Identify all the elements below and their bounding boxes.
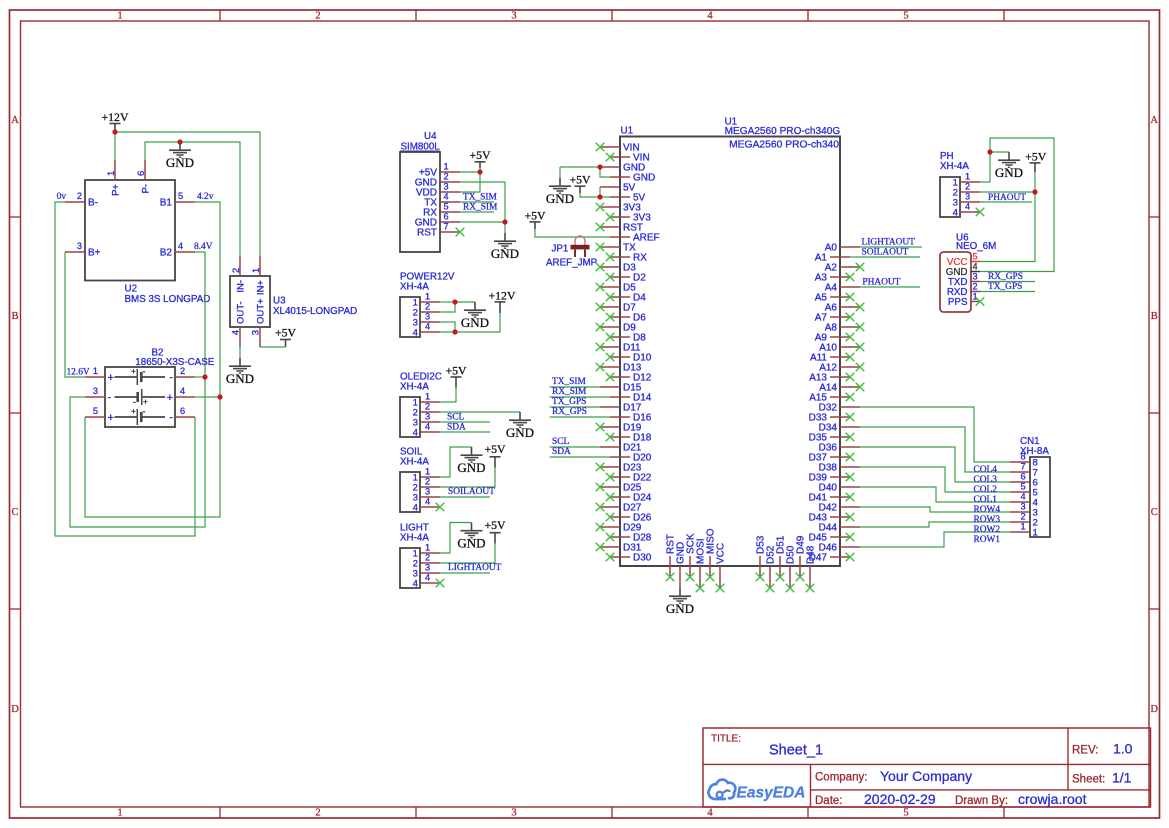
svg-text:3: 3 [511,11,516,22]
svg-text:3: 3 [973,271,978,281]
svg-text:1: 1 [106,171,117,176]
svg-text:3: 3 [965,191,970,201]
svg-text:+: + [108,372,114,384]
svg-text:B+: B+ [88,248,101,259]
svg-text:GND: GND [457,535,485,550]
svg-text:B: B [1151,311,1158,322]
svg-text:Sheet_1: Sheet_1 [769,743,823,759]
svg-text:RX_SIM: RX_SIM [552,387,587,397]
svg-text:Your Company: Your Company [880,768,972,784]
svg-text:6: 6 [1020,471,1025,481]
svg-text:4: 4 [707,11,713,22]
svg-text:+5V: +5V [524,208,546,222]
svg-text:5: 5 [973,251,978,261]
svg-text:COL1: COL1 [974,495,998,505]
svg-text:ROW1: ROW1 [974,535,1001,545]
svg-text:COL2: COL2 [974,485,998,495]
svg-text:2: 2 [315,808,320,819]
svg-text:2: 2 [425,401,430,411]
svg-text:JP1: JP1 [552,243,569,254]
svg-text:1: 1 [251,268,262,273]
svg-text:1: 1 [973,291,978,301]
svg-text:GND: GND [546,191,574,206]
svg-text:TX_SIM: TX_SIM [463,193,498,203]
svg-text:1: 1 [1020,521,1025,531]
svg-text:+: + [131,406,136,416]
svg-text:B-: B- [88,198,98,209]
svg-text:SDA: SDA [552,447,571,457]
svg-text:-: - [143,406,146,416]
svg-text:+5V: +5V [484,518,506,532]
svg-text:3: 3 [425,562,430,572]
svg-text:LIGHTAOUT: LIGHTAOUT [862,238,916,248]
svg-text:6: 6 [136,171,147,176]
svg-text:4: 4 [443,191,448,201]
svg-text:12.6V: 12.6V [67,368,90,378]
svg-text:1/1: 1/1 [1112,769,1132,785]
svg-text:XL4015-LONGPAD: XL4015-LONGPAD [273,306,357,317]
svg-text:SDA: SDA [447,423,466,433]
svg-text:REV:: REV: [1072,745,1098,757]
svg-text:+12V: +12V [489,289,516,303]
svg-text:SCL: SCL [552,437,569,447]
svg-text:0v: 0v [57,192,67,202]
svg-text:OUT-: OUT- [236,301,247,324]
svg-text:LIGHTAOUT: LIGHTAOUT [448,563,502,573]
svg-text:6: 6 [443,211,448,221]
svg-text:5: 5 [178,191,183,201]
svg-text:3: 3 [425,411,430,421]
svg-text:AREF: AREF [633,232,660,243]
svg-text:D48: D48 [805,545,816,564]
svg-text:4: 4 [178,241,183,251]
svg-text:4: 4 [425,421,430,431]
svg-text:ROW4: ROW4 [974,505,1001,515]
svg-text:PHAOUT: PHAOUT [988,193,1026,203]
svg-text:GND: GND [457,460,485,475]
svg-text:2: 2 [1020,511,1025,521]
svg-text:4: 4 [973,261,978,271]
svg-text:SOILAOUT: SOILAOUT [448,487,495,497]
svg-text:4: 4 [231,330,242,335]
svg-text:GND: GND [633,172,655,183]
svg-text:8: 8 [1020,451,1025,461]
svg-text:1: 1 [1033,527,1038,538]
svg-text:4: 4 [180,386,185,396]
svg-text:-: - [143,366,146,376]
svg-text:4: 4 [965,201,970,211]
svg-text:B2: B2 [160,248,173,259]
svg-text:GND: GND [506,425,534,440]
svg-text:7: 7 [443,221,448,231]
svg-text:P-: P- [141,184,152,194]
svg-text:2: 2 [425,301,430,311]
svg-text:Company:: Company: [815,772,867,784]
svg-text:GND: GND [675,542,686,564]
svg-text:RX_GPS: RX_GPS [988,272,1023,282]
svg-text:+: + [167,392,173,404]
svg-text:4: 4 [413,578,419,589]
svg-text:B: B [11,311,18,322]
svg-text:4.2v: 4.2v [197,192,214,202]
svg-text:Sheet:: Sheet: [1072,773,1105,785]
svg-text:D: D [11,704,19,715]
svg-text:C: C [1151,507,1158,518]
svg-text:MOSI: MOSI [695,538,706,564]
svg-text:+: + [131,366,136,376]
svg-text:C: C [11,507,18,518]
svg-text:3: 3 [425,311,430,321]
svg-text:SOILAOUT: SOILAOUT [862,248,909,258]
svg-text:2: 2 [965,181,970,191]
svg-text:5: 5 [903,808,908,819]
svg-text:1: 1 [117,808,122,819]
svg-text:1: 1 [965,171,970,181]
svg-text:VCC: VCC [715,543,726,564]
svg-text:1: 1 [425,391,430,401]
svg-text:PHAOUT: PHAOUT [862,277,900,287]
svg-text:3: 3 [93,386,98,396]
svg-text:2: 2 [443,171,448,181]
svg-text:COL4: COL4 [974,465,998,475]
svg-text:3: 3 [1020,501,1025,511]
svg-text:GND: GND [461,315,489,330]
svg-text:1: 1 [425,291,430,301]
svg-text:5: 5 [93,406,98,416]
svg-text:+5V: +5V [445,364,467,378]
svg-text:1: 1 [443,161,448,171]
svg-text:+5V: +5V [275,326,297,340]
svg-text:1: 1 [425,542,430,552]
svg-text:2: 2 [973,281,978,291]
svg-text:SCL: SCL [447,413,464,423]
svg-text:1: 1 [425,466,430,476]
svg-text:4: 4 [413,427,419,438]
svg-text:2: 2 [180,366,185,376]
svg-text:GND: GND [995,165,1023,180]
svg-text:U1: U1 [621,126,634,137]
svg-text:GND: GND [166,155,194,170]
svg-text:TX_SIM: TX_SIM [552,377,587,387]
svg-text:GND: GND [666,601,694,616]
svg-text:MEGA2560 PRO-ch340G: MEGA2560 PRO-ch340G [725,126,841,137]
svg-text:COL3: COL3 [974,475,998,485]
svg-text:crowja.root: crowja.root [1018,791,1087,807]
svg-text:IN-: IN- [236,280,247,293]
svg-text:D30: D30 [633,552,652,563]
svg-text:TX_GPS: TX_GPS [988,282,1022,292]
svg-text:5: 5 [443,201,448,211]
svg-text:GND: GND [491,246,519,261]
svg-text:D52: D52 [765,545,776,564]
svg-text:Drawn By:: Drawn By: [955,795,1008,807]
svg-text:A: A [1150,115,1158,126]
svg-text:8.4V: 8.4V [194,242,213,252]
svg-text:2020-02-29: 2020-02-29 [864,791,936,807]
svg-text:-: - [108,392,112,404]
svg-text:RST: RST [417,227,437,238]
svg-text:4: 4 [425,572,430,582]
svg-text:+5V: +5V [469,148,491,162]
svg-text:D50: D50 [785,545,796,564]
svg-text:4: 4 [413,502,419,513]
svg-text:TX_GPS: TX_GPS [552,397,586,407]
svg-text:RX_GPS: RX_GPS [552,407,587,417]
svg-text:6: 6 [180,406,185,416]
svg-text:A: A [11,115,19,126]
svg-text:RX_SIM: RX_SIM [463,203,498,213]
svg-text:IN+: IN+ [256,280,267,296]
svg-text:2: 2 [315,11,320,22]
svg-text:P+: P+ [111,184,122,196]
svg-text:D: D [1150,704,1158,715]
svg-text:4: 4 [413,327,419,338]
svg-text:1: 1 [117,11,122,22]
svg-text:-: - [169,412,173,424]
svg-text:3: 3 [443,181,448,191]
svg-text:EasyEDA: EasyEDA [737,785,806,802]
svg-text:XH-4A: XH-4A [940,161,969,172]
svg-text:4: 4 [425,496,430,506]
svg-text:4: 4 [953,207,959,218]
svg-text:NEO_6M: NEO_6M [956,241,996,252]
svg-text:2: 2 [77,191,82,201]
svg-text:3: 3 [425,486,430,496]
svg-text:3: 3 [77,241,82,251]
svg-text:GND: GND [226,371,254,386]
svg-text:2: 2 [425,552,430,562]
svg-text:3: 3 [251,330,262,335]
svg-text:4: 4 [1020,491,1025,501]
svg-text:2: 2 [425,476,430,486]
svg-text:ROW3: ROW3 [974,515,1001,525]
svg-text:4: 4 [707,808,713,819]
svg-text:+12V: +12V [102,110,129,124]
svg-text:+: + [108,412,114,424]
svg-text:4: 4 [425,321,430,331]
svg-text:B1: B1 [160,198,173,209]
svg-text:5: 5 [903,11,908,22]
svg-text:U4: U4 [424,131,437,142]
svg-text:+5V: +5V [1025,149,1047,163]
svg-text:BMS 3S LONGPAD: BMS 3S LONGPAD [125,294,211,305]
svg-text:PPS: PPS [948,297,968,308]
svg-text:Date:: Date: [815,795,843,807]
svg-text:1: 1 [93,366,98,376]
svg-text:2: 2 [231,268,242,273]
svg-text:MEGA2560 PRO-ch340: MEGA2560 PRO-ch340 [729,139,839,150]
svg-text:+5V: +5V [484,442,506,456]
svg-text:1.0: 1.0 [1113,741,1133,757]
svg-text:AREF_JMP: AREF_JMP [546,258,598,269]
svg-text:5: 5 [1020,481,1025,491]
svg-text:+5V: +5V [569,173,591,187]
svg-text:7: 7 [1020,461,1025,471]
svg-text:3: 3 [511,808,516,819]
svg-text:TITLE:: TITLE: [711,734,741,745]
svg-text:OUT+: OUT+ [256,298,267,324]
svg-text:-: - [169,372,173,384]
svg-text:ROW2: ROW2 [974,525,1001,535]
